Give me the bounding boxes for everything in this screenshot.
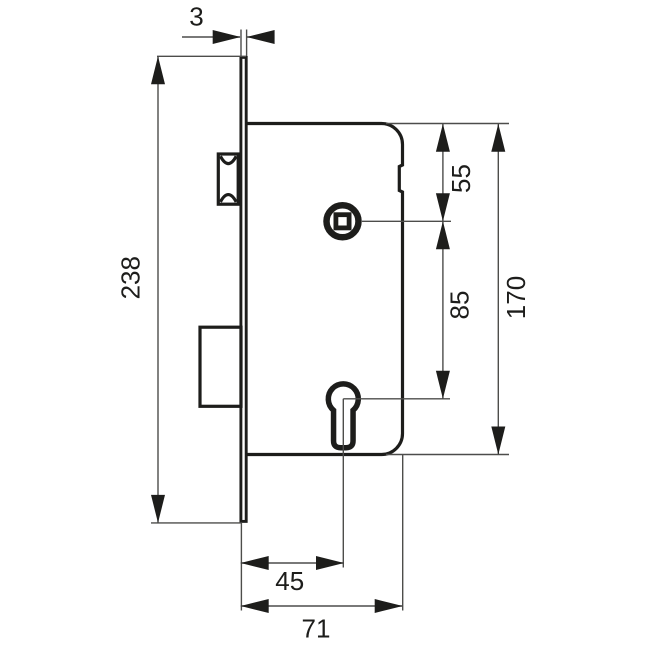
arrow dim 71 right (375, 599, 403, 613)
latch bevel arc bottom (220, 195, 236, 202)
arrow dim 85 down (436, 371, 450, 399)
arrow dim 55 down (436, 193, 450, 221)
svg-text:45: 45 (275, 566, 304, 596)
arrow dim 45 right (316, 556, 344, 570)
svg-text:85: 85 (445, 291, 475, 320)
svg-text:71: 71 (302, 614, 331, 644)
extension line follower centre (dims 55 85) (362, 220, 451, 222)
arrow dim 85 up (436, 221, 450, 249)
arrow dim 3 right (247, 30, 275, 44)
follower square spindle hole (327, 205, 359, 237)
euro cylinder keyhole (328, 384, 358, 448)
dimension line 238 (157, 56, 159, 523)
extension line lock top (dims 55 170) (386, 123, 509, 125)
extension line faceplate left (dim 3) (240, 30, 242, 57)
svg-text:170: 170 (501, 276, 531, 319)
lock body (247, 124, 403, 455)
latch bolt (218, 154, 238, 204)
arrow dim 170 up (491, 124, 505, 152)
leader line right (dim 3) (247, 36, 274, 38)
extension line keyhole centre (dim 85) (343, 398, 450, 400)
arrow dim 238 down (151, 495, 165, 523)
dimension line 71 (241, 605, 403, 607)
arrow dim 45 left (241, 556, 269, 570)
arrow dim 71 left (241, 599, 269, 613)
extension line bottom (dim 238) (151, 522, 242, 524)
extension line lock right edge down (dim 71) (402, 455, 404, 611)
svg-text:3: 3 (189, 2, 203, 32)
dimension line 45 (241, 562, 344, 564)
arrow dim 55 up (436, 124, 450, 152)
faceplate (241, 57, 246, 521)
arrow dim 238 up (151, 56, 165, 84)
svg-text:238: 238 (116, 256, 146, 299)
svg-text:55: 55 (446, 164, 476, 193)
deadbolt (200, 327, 241, 406)
extension line faceplate face bottom (dims 45 71) (240, 523, 242, 611)
latch bevel arc top (220, 156, 236, 163)
extension line top (dim 238) (157, 55, 246, 57)
arrow dim 3 left (213, 30, 241, 44)
arrow dim 170 down (491, 427, 505, 455)
extension line lock bottom (dim 170) (386, 454, 509, 456)
extension line faceplate right (dim 3) (246, 30, 248, 57)
extension line keyhole centre down (dim 45) (342, 399, 344, 568)
leader line left (dim 3) (182, 36, 240, 38)
dimension line 170 (497, 124, 499, 455)
dimension line 55 85 (442, 124, 444, 399)
